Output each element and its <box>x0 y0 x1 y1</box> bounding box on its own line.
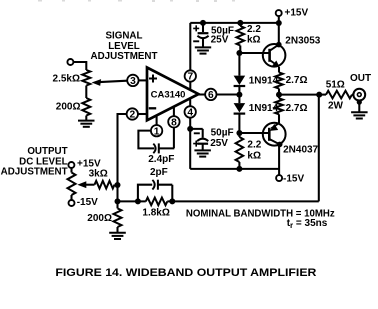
resistor 200Ω input <box>82 98 90 116</box>
ground output jack <box>351 111 368 113</box>
faint print remnants top edge <box>38 0 235 2</box>
junction top rail / +15V <box>276 20 282 26</box>
pin 6 <box>199 93 206 95</box>
junction diodes / pin6 <box>236 92 242 98</box>
svg-text:2.2: 2.2 <box>247 139 261 150</box>
potentiometer 2.5kΩ <box>82 70 90 86</box>
junction emitter resistors <box>276 92 282 98</box>
ground C1 <box>195 46 211 48</box>
svg-text:FIGURE 14. WIDEBAND OUTPUT AMP: FIGURE 14. WIDEBAND OUTPUT AMPLIFIER <box>55 267 316 279</box>
resistor 2.2kΩ bottom <box>238 133 240 137</box>
svg-text:-15V: -15V <box>77 197 98 208</box>
wire node to D2 <box>238 95 240 104</box>
+15V pot terminal <box>68 162 74 168</box>
op-amp U1 CA3140 <box>147 68 199 121</box>
svg-text:200Ω: 200Ω <box>87 213 112 224</box>
wire input terminal to pot <box>73 62 86 70</box>
wire output node to R51 <box>319 94 326 96</box>
resistor 2.7Ω top <box>275 73 283 89</box>
junction bottom rail <box>236 166 242 172</box>
svg-text:1: 1 <box>154 126 160 137</box>
-15V terminal <box>276 175 282 181</box>
junction 2pF right <box>169 198 175 204</box>
capacitor C2 50µF 25V <box>190 129 203 138</box>
svg-text:25V: 25V <box>211 34 229 45</box>
resistor 3kΩ wiper <box>95 181 115 189</box>
wire node to R1.8k <box>118 200 146 202</box>
resistor 1.8kΩ <box>146 198 168 206</box>
junction feedback node left <box>115 198 121 204</box>
capacitor 2pF loop <box>138 185 172 202</box>
bottom rail wire <box>190 129 279 169</box>
svg-text:7: 7 <box>187 72 193 83</box>
pot 3k wiper arrow <box>85 184 95 186</box>
capacitor C1 50µF 25V <box>202 23 204 32</box>
svg-text:51Ω: 51Ω <box>326 80 345 91</box>
pin 4 <box>189 100 191 107</box>
svg-text:ADJUSTMENT: ADJUSTMENT <box>91 51 158 62</box>
svg-text:CA3140: CA3140 <box>151 89 186 100</box>
resistor 2.7Ω bottom <box>278 95 280 99</box>
wire D2 to Q2 base node <box>238 114 240 133</box>
svg-text:2.5kΩ: 2.5kΩ <box>53 74 80 85</box>
wire diode chain top <box>238 53 240 76</box>
wire pin2 to node <box>118 114 127 185</box>
pot wiper arrow <box>97 81 127 83</box>
svg-text:-15V: -15V <box>283 174 304 185</box>
svg-text:2.7Ω: 2.7Ω <box>286 103 308 114</box>
junction R2.2k / D1 / Q1 base <box>236 50 242 56</box>
svg-text:2: 2 <box>129 110 135 121</box>
svg-text:2N3053: 2N3053 <box>285 36 320 47</box>
junction output node <box>316 92 322 98</box>
svg-text:4: 4 <box>187 108 193 119</box>
svg-text:ADJUSTMENT: ADJUSTMENT <box>1 167 68 178</box>
junction pin4 / C2 <box>187 126 193 132</box>
junction 2pF left <box>135 198 141 204</box>
wire D1 to node <box>238 86 240 95</box>
junction wiper node <box>115 182 121 188</box>
pin 2 <box>127 108 138 119</box>
resistor 2.2kΩ top <box>239 23 241 26</box>
transistor Q1 2N3053 <box>263 44 286 67</box>
potentiometer 3kΩ <box>70 168 72 173</box>
wire R51 to jack <box>352 94 354 96</box>
wire Q2 collector to -15V <box>278 144 280 175</box>
pin 3 <box>127 75 138 86</box>
svg-text:2.7Ω: 2.7Ω <box>286 75 308 86</box>
diode D2 1N914 <box>234 103 246 112</box>
svg-text:+15V: +15V <box>285 7 309 18</box>
svg-text:OUT: OUT <box>350 73 371 84</box>
wire to output node <box>279 89 319 95</box>
+15V terminal <box>276 10 282 16</box>
svg-text:6: 6 <box>208 90 214 101</box>
capacitor 2.4pF loop <box>138 131 174 149</box>
wire node down <box>116 185 118 208</box>
ground C2 <box>194 149 211 151</box>
wire pot to 200ohm <box>85 86 87 99</box>
ground input pot <box>78 120 95 122</box>
wire Q1 base <box>239 52 263 54</box>
svg-text:1N914: 1N914 <box>249 76 279 87</box>
junction Q2 base <box>236 130 242 136</box>
wire 200ohm to ground <box>85 116 87 121</box>
wire to Q2 emitter <box>278 114 280 123</box>
wire Q1 emitter <box>278 67 280 73</box>
output jack <box>353 89 365 101</box>
ground 200Ω bottom <box>109 232 126 234</box>
junction rail / R2.2k <box>237 20 243 26</box>
svg-text:2N4037: 2N4037 <box>283 145 318 156</box>
svg-text:tr = 35ns: tr = 35ns <box>287 218 328 230</box>
wire Q2 base <box>239 132 263 134</box>
pin 8 <box>173 107 175 116</box>
svg-text:1.8kΩ: 1.8kΩ <box>142 207 169 218</box>
svg-text:SIGNAL: SIGNAL <box>105 31 142 42</box>
svg-text:2W: 2W <box>328 101 344 112</box>
pin 1 <box>156 115 158 125</box>
svg-text:kΩ: kΩ <box>247 35 261 46</box>
svg-text:3: 3 <box>130 76 136 87</box>
svg-text:kΩ: kΩ <box>247 150 261 161</box>
junction rail / C1 <box>200 20 206 26</box>
jack ground stub <box>357 100 362 105</box>
resistor 51Ω 2W <box>326 91 352 99</box>
input terminal <box>67 59 73 65</box>
svg-text:2.4pF: 2.4pF <box>148 154 174 165</box>
-15V pot terminal <box>69 200 75 206</box>
svg-text:8: 8 <box>171 117 177 128</box>
svg-text:25V: 25V <box>210 138 228 149</box>
svg-text:2pF: 2pF <box>150 167 168 178</box>
+15V supply wire top rail <box>190 22 278 24</box>
svg-text:3kΩ: 3kΩ <box>89 168 108 179</box>
resistor 200Ω bottom <box>114 208 122 227</box>
wire to ground <box>116 227 118 233</box>
pin 7 <box>189 23 191 70</box>
feedback wire <box>167 95 318 202</box>
svg-text:200Ω: 200Ω <box>56 102 81 113</box>
diode D1 1N914 <box>234 76 246 85</box>
transistor Q2 2N4037 <box>263 123 286 146</box>
